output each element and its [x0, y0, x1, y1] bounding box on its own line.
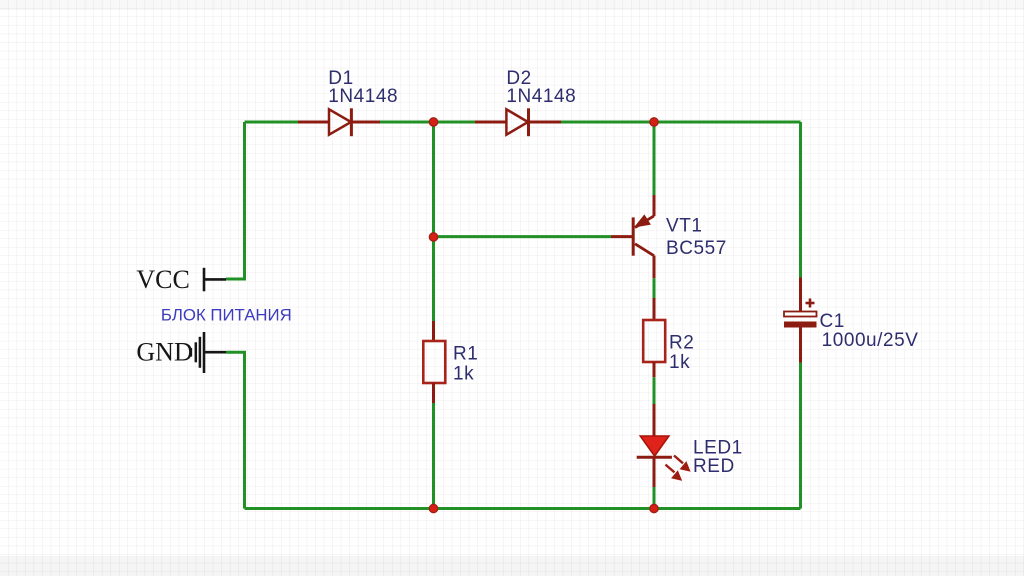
junction: bottom rail / R1 branch: [429, 504, 437, 512]
wire: top rail between D1 and D2: [380, 121, 475, 124]
wire: top rail left segment: [245, 121, 299, 124]
pin: VCC terminal: [204, 268, 226, 292]
wire: mid vertical from top rail to R1: [432, 122, 435, 321]
svg-text:GND: GND: [136, 338, 192, 367]
wire: LED1 to bottom rail: [653, 487, 656, 509]
wire: base wire to VT1: [434, 235, 612, 238]
svg-text:1N4148: 1N4148: [506, 86, 576, 107]
svg-text:RED: RED: [693, 456, 735, 477]
plus sign: [806, 299, 815, 308]
junction: base tap: [429, 233, 437, 241]
svg-text:R2: R2: [669, 333, 694, 354]
wire: VT1 collector to R2: [653, 278, 656, 299]
svg-text:C1: C1: [820, 311, 845, 332]
svg-text:1000u/25V: 1000u/25V: [822, 330, 919, 351]
svg-text:1N4148: 1N4148: [328, 86, 398, 107]
svg-text:VT1: VT1: [666, 215, 703, 236]
junction: top rail / VT1 emitter branch: [650, 118, 658, 126]
wire: top rail down to C1: [799, 122, 802, 278]
diode D1 1N4148: [298, 108, 380, 136]
wire: top rail down to VT1 emitter: [653, 122, 656, 196]
svg-text:R1: R1: [453, 344, 478, 365]
LED LED1 RED: [637, 404, 690, 487]
wire: C1 to bottom rail: [799, 363, 802, 509]
wire: VCC feed (up to top rail): [226, 122, 245, 279]
svg-text:1k: 1k: [453, 364, 474, 385]
wire: top rail right segment: [561, 121, 801, 124]
junction: bottom rail / LED branch: [650, 504, 658, 512]
wire: R2 to LED1: [653, 377, 656, 405]
wire: R1 bottom to bottom rail: [432, 403, 435, 509]
resistor R1 1k: [423, 321, 445, 403]
capacitor C1 1000u/25V (polarized): [784, 278, 817, 363]
svg-text:BC557: BC557: [666, 238, 727, 259]
svg-text:1k: 1k: [669, 352, 690, 373]
svg-text:БЛОК ПИТАНИЯ: БЛОК ПИТАНИЯ: [161, 305, 292, 324]
wire: bottom rail: [245, 507, 801, 510]
LED light arrow 2: [666, 465, 682, 481]
diode D2 1N4148: [475, 108, 561, 136]
transistor VT1 BC557 (PNP): [632, 195, 654, 278]
svg-text:VCC: VCC: [136, 265, 189, 294]
wire: GND feed (down to bottom rail): [226, 352, 245, 508]
junction: top rail / R1 branch: [429, 118, 437, 126]
ground symbol GND: [191, 332, 226, 373]
LED light arrow 1: [674, 456, 690, 472]
resistor R2 1k: [643, 298, 665, 377]
wire segment: VT1 base lead (maroon): [611, 235, 632, 238]
